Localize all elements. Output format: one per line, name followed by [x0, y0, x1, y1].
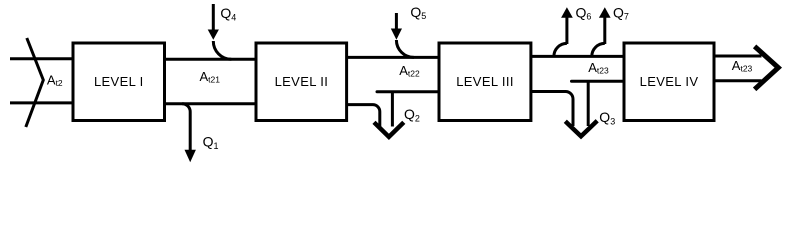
arrow Q3 chevron — [565, 121, 597, 137]
wire output top — [714, 55, 762, 58]
wire II-III top — [348, 56, 439, 59]
box LEVEL III — [439, 43, 531, 121]
offtake Q3 wire from LEVEL III — [531, 92, 573, 127]
svg-text:LEVEL III: LEVEL III — [456, 74, 514, 89]
offtake Q2 wire from LEVEL II — [347, 105, 380, 127]
svg-text:LEVEL II: LEVEL II — [275, 74, 329, 89]
offtake Q3 wire right wall — [587, 82, 590, 126]
wire input bottom — [10, 101, 73, 104]
wire output bottom — [714, 79, 762, 82]
wire I-II bottom — [166, 102, 256, 105]
output flow chevron — [755, 46, 779, 89]
arrow Q1 — [182, 104, 218, 163]
wire input top — [10, 57, 73, 60]
svg-text:LEVEL I: LEVEL I — [94, 74, 144, 89]
box LEVEL II — [256, 43, 347, 121]
box LEVEL I — [73, 43, 165, 121]
arrow Q4 — [208, 4, 237, 59]
wire III-IV top — [531, 55, 624, 58]
offtake Q2 wire right wall — [391, 93, 394, 127]
wire I-II top — [166, 58, 256, 61]
input flow chevron — [26, 38, 44, 127]
wire II-III bottom (LEVEL III side) — [377, 90, 439, 93]
arrow Q5 — [391, 4, 427, 58]
svg-text:LEVEL IV: LEVEL IV — [640, 74, 699, 89]
arrow Q2 chevron — [374, 122, 404, 137]
wire III-IV bottom (LEVEL IV side) — [572, 80, 625, 83]
arrow Q6 — [554, 5, 592, 57]
box LEVEL IV — [624, 43, 714, 121]
arrow Q7 — [592, 5, 629, 57]
